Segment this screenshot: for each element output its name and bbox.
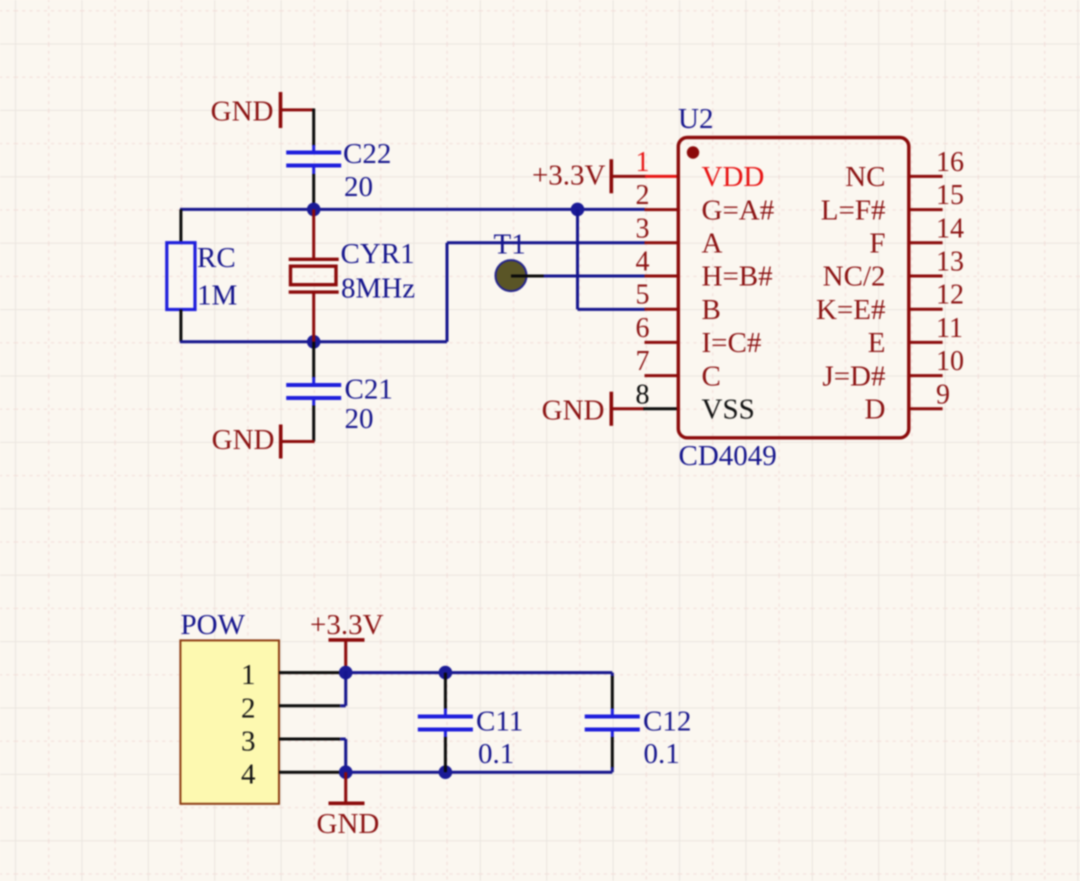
svg-text:U2: U2 — [678, 103, 713, 135]
svg-text:6: 6 — [636, 313, 650, 344]
svg-text:0.1: 0.1 — [644, 738, 680, 770]
svg-text:20: 20 — [345, 403, 374, 435]
svg-text:POW: POW — [181, 609, 246, 641]
svg-text:4: 4 — [241, 759, 256, 791]
svg-text:GND: GND — [212, 424, 275, 456]
svg-text:C11: C11 — [476, 706, 523, 738]
svg-text:+3.3V: +3.3V — [310, 609, 384, 641]
svg-text:CD4049: CD4049 — [679, 440, 777, 472]
svg-text:VDD: VDD — [702, 161, 765, 193]
svg-text:GND: GND — [542, 394, 605, 426]
svg-text:A: A — [702, 228, 723, 260]
svg-text:F: F — [869, 228, 885, 260]
svg-text:E: E — [868, 327, 886, 359]
svg-text:8: 8 — [636, 379, 650, 410]
svg-text:RC: RC — [197, 242, 236, 274]
svg-text:CYR1: CYR1 — [341, 238, 415, 270]
svg-text:5: 5 — [636, 280, 650, 311]
svg-text:C21: C21 — [345, 374, 393, 406]
svg-text:NC/2: NC/2 — [823, 261, 886, 293]
svg-text:VSS: VSS — [702, 394, 755, 426]
svg-text:H=B#: H=B# — [702, 261, 773, 293]
svg-text:8MHz: 8MHz — [341, 273, 415, 305]
svg-text:D: D — [865, 394, 886, 426]
svg-text:C: C — [702, 360, 721, 392]
svg-text:I=C#: I=C# — [702, 327, 762, 359]
svg-text:11: 11 — [936, 313, 963, 344]
svg-text:1: 1 — [241, 659, 256, 691]
svg-text:1M: 1M — [197, 280, 237, 312]
svg-text:10: 10 — [936, 346, 964, 377]
svg-text:2: 2 — [636, 180, 650, 211]
svg-text:13: 13 — [936, 247, 964, 278]
svg-text:9: 9 — [936, 379, 950, 410]
svg-text:K=E#: K=E# — [816, 294, 886, 326]
svg-text:7: 7 — [636, 346, 650, 377]
svg-text:12: 12 — [936, 280, 964, 311]
svg-text:B: B — [702, 294, 721, 326]
svg-text:0.1: 0.1 — [478, 738, 514, 770]
svg-text:1: 1 — [636, 147, 650, 178]
svg-text:G=A#: G=A# — [702, 194, 775, 226]
svg-text:14: 14 — [936, 213, 964, 244]
svg-text:3: 3 — [636, 213, 650, 244]
svg-text:NC: NC — [845, 161, 885, 193]
svg-text:2: 2 — [241, 692, 256, 724]
svg-text:C12: C12 — [643, 706, 691, 738]
svg-text:15: 15 — [936, 180, 964, 211]
svg-text:16: 16 — [936, 147, 964, 178]
svg-text:T1: T1 — [494, 229, 526, 261]
svg-text:J=D#: J=D# — [822, 360, 885, 392]
svg-text:4: 4 — [636, 247, 650, 278]
svg-text:3: 3 — [241, 726, 256, 758]
svg-text:GND: GND — [211, 96, 274, 128]
svg-text:GND: GND — [317, 808, 380, 840]
svg-text:C22: C22 — [343, 138, 391, 170]
svg-text:L=F#: L=F# — [821, 194, 886, 226]
svg-text:+3.3V: +3.3V — [532, 160, 606, 192]
svg-text:20: 20 — [344, 171, 373, 203]
